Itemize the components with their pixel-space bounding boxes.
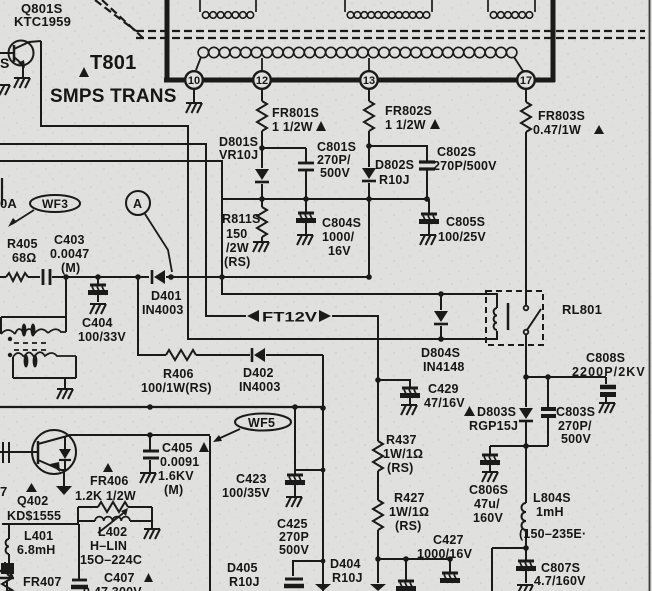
svg-text:VR10J: VR10J (219, 148, 258, 162)
svg-text:C403: C403 (54, 233, 85, 247)
svg-text:C807S: C807S (541, 561, 580, 575)
svg-text:WF3: WF3 (42, 197, 68, 211)
svg-text:0A: 0A (0, 196, 17, 211)
svg-text:0.0047: 0.0047 (50, 247, 89, 261)
svg-text:270P/: 270P/ (558, 419, 592, 433)
svg-text:D405: D405 (227, 561, 258, 575)
svg-text:1.2K 1/2W: 1.2K 1/2W (75, 489, 136, 503)
svg-text:R811S: R811S (222, 212, 261, 226)
svg-text:4.7/160V: 4.7/160V (534, 574, 586, 588)
svg-text:12: 12 (256, 75, 268, 87)
svg-text:2200P/2KV: 2200P/2KV (572, 365, 646, 379)
svg-text:WF5: WF5 (248, 416, 275, 430)
svg-text:47/16V: 47/16V (424, 396, 465, 410)
svg-text:0.47 300V: 0.47 300V (83, 585, 142, 591)
svg-text:T801: T801 (90, 52, 136, 74)
svg-text:R406: R406 (163, 367, 194, 381)
svg-text:500V: 500V (320, 166, 350, 180)
svg-text:C429: C429 (428, 382, 459, 396)
svg-text:500V: 500V (279, 543, 309, 557)
svg-text:1 1/2W: 1 1/2W (272, 120, 313, 134)
svg-text:R405: R405 (7, 237, 38, 251)
svg-text:150: 150 (226, 227, 247, 241)
svg-text:(150–235E·: (150–235E· (519, 527, 586, 541)
svg-text:H–LIN: H–LIN (90, 539, 127, 553)
svg-text:C405: C405 (162, 441, 193, 455)
svg-text:FR407: FR407 (23, 575, 62, 589)
svg-text:R10J: R10J (332, 571, 363, 585)
svg-text:0.0091: 0.0091 (160, 455, 199, 469)
svg-text:C425: C425 (277, 517, 308, 531)
svg-text:C423: C423 (236, 472, 267, 486)
svg-text:C427: C427 (433, 533, 464, 547)
svg-text:IN4003: IN4003 (239, 380, 281, 394)
svg-text:C802S: C802S (437, 145, 476, 159)
svg-text:(RS): (RS) (387, 461, 414, 475)
svg-text:C808S: C808S (586, 351, 625, 365)
svg-text:S: S (0, 55, 10, 71)
svg-text:10: 10 (188, 75, 200, 87)
svg-text:RL801: RL801 (562, 302, 602, 317)
svg-text:(RS): (RS) (224, 255, 251, 269)
svg-text:C404: C404 (82, 316, 113, 330)
svg-text:FR802S: FR802S (385, 104, 432, 118)
svg-text:1W/1Ω: 1W/1Ω (389, 505, 429, 519)
svg-text:1000/: 1000/ (322, 230, 355, 244)
svg-text:C806S: C806S (469, 483, 508, 497)
svg-text:100/25V: 100/25V (438, 230, 486, 244)
svg-text:L804S: L804S (533, 491, 571, 505)
svg-text:6.8mH: 6.8mH (17, 543, 56, 557)
svg-text:KTC1959: KTC1959 (14, 14, 71, 29)
svg-text:(M): (M) (164, 483, 183, 497)
svg-text:L401: L401 (24, 529, 53, 543)
svg-text:16V: 16V (328, 244, 351, 258)
svg-text:1 1/2W: 1 1/2W (385, 118, 426, 132)
svg-text:1W/1Ω: 1W/1Ω (383, 447, 423, 461)
svg-text:FR801S: FR801S (272, 106, 319, 120)
svg-text:KD$1555: KD$1555 (7, 509, 61, 523)
svg-text:47u/: 47u/ (474, 497, 500, 511)
svg-text:100/33V: 100/33V (78, 330, 126, 344)
svg-text:D402: D402 (243, 366, 274, 380)
svg-text:FR406: FR406 (90, 474, 129, 488)
svg-text:L402: L402 (98, 525, 127, 539)
svg-text:R10J: R10J (229, 575, 260, 589)
svg-text:7: 7 (0, 484, 7, 499)
svg-text:C801S: C801S (317, 140, 356, 154)
svg-text:FT12V: FT12V (262, 310, 317, 325)
svg-text:500V: 500V (561, 432, 591, 446)
svg-text:A: A (133, 197, 142, 211)
svg-text:R427: R427 (394, 491, 425, 505)
svg-text:1.6KV: 1.6KV (158, 469, 194, 483)
svg-text:D802S: D802S (375, 158, 414, 172)
svg-text:17: 17 (520, 75, 532, 87)
svg-text:C804S: C804S (322, 216, 361, 230)
svg-text:/2W: /2W (226, 241, 249, 255)
svg-text:(M): (M) (61, 261, 80, 275)
svg-text:270P: 270P (279, 530, 309, 544)
svg-text:FR803S: FR803S (538, 109, 585, 123)
svg-text:1mH: 1mH (536, 505, 564, 519)
svg-text:C805S: C805S (446, 215, 485, 229)
svg-text:D801S: D801S (219, 135, 258, 149)
svg-text:D804S: D804S (421, 346, 460, 360)
svg-text:SMPS TRANS: SMPS TRANS (50, 86, 177, 107)
svg-text:100/1W(RS): 100/1W(RS) (141, 381, 212, 395)
svg-text:15O–224C: 15O–224C (80, 553, 142, 567)
svg-text:D404: D404 (330, 557, 361, 571)
svg-text:D803S: D803S (477, 405, 516, 419)
svg-text:13: 13 (363, 75, 375, 87)
svg-text:100/35V: 100/35V (222, 486, 270, 500)
svg-text:R10J: R10J (379, 173, 410, 187)
svg-text:C407: C407 (104, 571, 135, 585)
svg-text:160V: 160V (473, 511, 503, 525)
svg-text:270P/500V: 270P/500V (433, 159, 497, 173)
svg-text:IN4148: IN4148 (423, 360, 465, 374)
svg-text:68Ω: 68Ω (12, 251, 37, 265)
svg-text:(RS): (RS) (395, 519, 422, 533)
svg-text:270P/: 270P/ (317, 153, 351, 167)
svg-text:R437: R437 (386, 433, 417, 447)
svg-text:RGP15J: RGP15J (469, 419, 518, 433)
svg-text:D401: D401 (151, 289, 182, 303)
svg-text:0.47/1W: 0.47/1W (533, 123, 581, 137)
svg-text:IN4003: IN4003 (142, 303, 184, 317)
svg-text:Q402: Q402 (17, 494, 48, 508)
svg-text:C803S: C803S (556, 405, 595, 419)
svg-text:1000/16V: 1000/16V (417, 547, 473, 561)
